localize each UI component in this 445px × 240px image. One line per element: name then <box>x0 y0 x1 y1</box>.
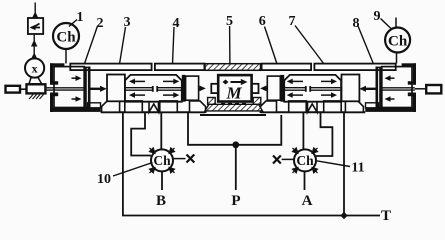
svg-text:4: 4 <box>173 16 180 31</box>
svg-text:10: 10 <box>97 172 111 187</box>
svg-text:T: T <box>381 208 391 224</box>
svg-text:Ch: Ch <box>388 34 408 50</box>
svg-text:Ch: Ch <box>153 153 171 168</box>
svg-text:3: 3 <box>124 15 131 30</box>
svg-text:11: 11 <box>351 161 364 176</box>
svg-text:1: 1 <box>77 10 84 25</box>
svg-text:x: x <box>32 61 38 75</box>
svg-text:2: 2 <box>97 16 104 31</box>
svg-text:8: 8 <box>353 16 360 31</box>
svg-text:5: 5 <box>226 14 233 29</box>
svg-text:P: P <box>231 193 240 209</box>
svg-text:M: M <box>225 84 242 103</box>
svg-text:7: 7 <box>289 14 296 29</box>
svg-text:9: 9 <box>374 9 381 24</box>
svg-text:A: A <box>302 193 313 209</box>
svg-text:B: B <box>156 193 166 209</box>
svg-text:6: 6 <box>259 14 266 29</box>
svg-text:Ch: Ch <box>296 153 314 168</box>
svg-text:Ch: Ch <box>56 30 76 46</box>
